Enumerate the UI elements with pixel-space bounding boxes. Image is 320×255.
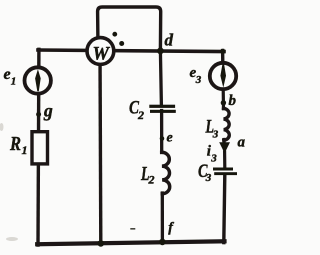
svg-text:d: d xyxy=(165,31,174,50)
resistor R1 xyxy=(32,132,48,164)
wire: inductor L2 to node f xyxy=(161,193,164,242)
junction dot: node f at bottom bus xyxy=(159,239,166,246)
voltage source e3 xyxy=(210,63,236,89)
wire: arrow tip to capacitor C3 xyxy=(223,152,226,168)
svg-text:a: a xyxy=(238,134,246,150)
wattmeter polarity dot upper xyxy=(112,32,117,37)
scan smudge left edge xyxy=(0,123,4,131)
capacitor C3 bottom plate xyxy=(214,172,237,175)
capacitor C2 bottom plate xyxy=(150,110,176,113)
voltage source e1 xyxy=(25,67,51,93)
svg-text:R: R xyxy=(9,133,21,155)
capacitor C2 top plate xyxy=(149,105,175,108)
node e dot xyxy=(160,136,165,141)
wire: capacitor C3 to bottom right corner xyxy=(224,175,225,243)
svg-text:1: 1 xyxy=(11,76,17,88)
svg-text:2: 2 xyxy=(137,108,144,122)
wire: inductor L3 to current arrow i3 xyxy=(222,140,226,149)
inductor L2 xyxy=(162,152,170,193)
junction dot: wattmeter branch at bottom bus xyxy=(98,240,105,247)
arrow inside source e3 (down) xyxy=(220,64,226,87)
svg-text:b: b xyxy=(229,93,237,109)
svg-text:3: 3 xyxy=(210,153,217,165)
wire: capacitor C2 to inductor L2 xyxy=(160,111,163,153)
svg-text:e: e xyxy=(4,66,11,83)
svg-text:2: 2 xyxy=(148,173,155,187)
svg-text:3: 3 xyxy=(195,74,202,86)
arrow inside source e1 (up) xyxy=(35,69,41,91)
wire: wattmeter voltage-coil loop to node d xyxy=(98,7,161,51)
inductor L3 xyxy=(224,108,230,140)
svg-text:W: W xyxy=(92,44,110,64)
wattmeter polarity dot lower xyxy=(119,41,124,46)
node b dot xyxy=(221,100,226,105)
capacitor C3 top plate xyxy=(213,168,233,171)
wire: wattmeter lower branch vertical xyxy=(98,51,102,244)
node g dot xyxy=(36,112,41,117)
wire: left branch vertical xyxy=(36,49,40,245)
svg-text:e: e xyxy=(167,131,173,146)
corner blob top-right xyxy=(220,49,225,54)
node d junction dot xyxy=(157,48,164,55)
wire: top horizontal bus xyxy=(38,50,224,52)
scan smudge bottom-left xyxy=(6,237,18,241)
svg-text:g: g xyxy=(43,101,53,121)
svg-text:f: f xyxy=(168,221,174,236)
wattmeter U-W xyxy=(87,38,114,65)
scan mark near f xyxy=(130,228,135,230)
wire: right branch, top corner to source e3 xyxy=(221,51,225,65)
wire: bottom horizontal bus xyxy=(37,241,224,244)
wire: middle branch, node d to capacitor C2 xyxy=(160,51,161,105)
current arrow i3 head xyxy=(219,142,230,153)
wire: source e3 to node b and inductor L3 xyxy=(222,90,226,109)
svg-text:3: 3 xyxy=(205,172,212,184)
svg-text:3: 3 xyxy=(212,129,219,141)
svg-text:1: 1 xyxy=(22,143,28,157)
